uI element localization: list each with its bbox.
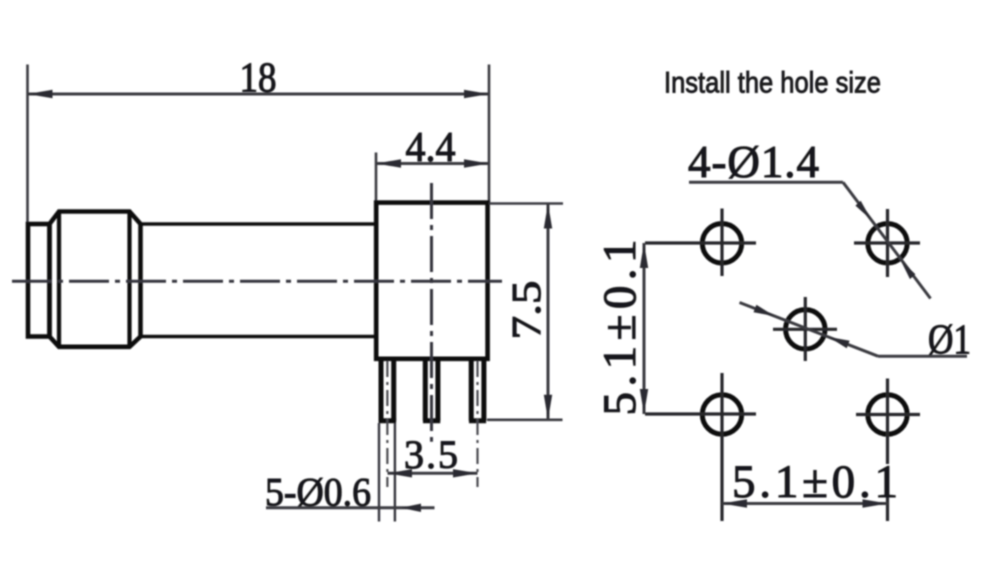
- dim 3.5 line: [388, 472, 478, 475]
- hex nut silhouette: [50, 212, 141, 347]
- dim 5.1 horizontal arrow right: [863, 499, 888, 507]
- svg-text:Ø1: Ø1: [928, 318, 971, 364]
- label O1 arrow lower: [829, 337, 850, 348]
- svg-text:7.5: 7.5: [503, 281, 549, 340]
- pin 3 right edge: [481, 359, 486, 421]
- dim 7.5 line: [547, 204, 550, 420]
- dim 7.5 arrow down: [544, 395, 552, 420]
- dim 7.5 extension bottom: [487, 418, 563, 421]
- hole top-right cross horizontal: [854, 241, 920, 244]
- dim 18 extension line right: [488, 65, 491, 204]
- hole top-left: [702, 224, 741, 263]
- label 4-O1.4 leader diagonal: [843, 182, 931, 298]
- hole top-right cross vertical: [886, 209, 889, 277]
- hole bottom-left cross horizontal / 5.1 bottom extension: [645, 412, 756, 415]
- dim 18 arrow left: [28, 90, 53, 98]
- hole center: [786, 310, 825, 349]
- pin 2 bottom: [423, 418, 440, 423]
- dim 18 arrow right: [464, 90, 489, 98]
- pin 2 right edge: [435, 359, 440, 421]
- dim 4.4 arrow left: [376, 159, 401, 167]
- pin 2 left edge: [423, 359, 428, 421]
- label 4-O1.4 arrow lower: [901, 260, 916, 279]
- dim 4.4 extension line left: [375, 153, 378, 202]
- label 5-O0.6 arrow: [401, 504, 421, 512]
- svg-text:4.4: 4.4: [406, 125, 456, 171]
- hole bottom-left cross vertical / ext down: [720, 373, 723, 521]
- label 4-O1.4 arrow upper: [855, 201, 871, 220]
- hex nut face edge right: [127, 212, 131, 347]
- dim 3.5 arrow left: [388, 469, 413, 477]
- vertical axis centerline of block: [430, 183, 433, 442]
- barrel bottom line: [141, 335, 377, 339]
- label 4-O1.4 underline: [689, 181, 843, 184]
- label 5-O0.6 leader line: [266, 506, 435, 509]
- pin 3 left edge: [469, 359, 474, 421]
- pin 1 left edge extension: [378, 423, 380, 522]
- dim 18 extension line left: [26, 65, 29, 223]
- hole bottom-left: [702, 395, 741, 434]
- dim 5.1 vertical arrow up: [640, 243, 648, 268]
- pin 3 centerline: [476, 361, 478, 487]
- pin 1 bottom: [379, 418, 397, 423]
- dim 3.5 arrow right: [453, 469, 478, 477]
- hole top-right: [868, 224, 907, 263]
- label O1 leader diagonal: [740, 303, 879, 357]
- hole top-left cross horizontal / 5.1 top extension: [645, 241, 756, 244]
- hole top-left cross vertical: [720, 209, 723, 277]
- hole bottom-right: [868, 395, 907, 434]
- hole bottom-right cross horizontal: [856, 413, 920, 416]
- svg-text:5.1±0.1: 5.1±0.1: [732, 456, 898, 508]
- dim 7.5 arrow up: [544, 204, 552, 229]
- label O1 arrow upper: [754, 305, 775, 316]
- body block: [376, 203, 487, 359]
- svg-text:5.1±0.1: 5.1±0.1: [594, 240, 646, 416]
- dim 5.1 horizontal arrow left: [722, 499, 747, 507]
- dim 5.1 vertical arrow down: [640, 389, 648, 414]
- connector cap (left end): [28, 224, 50, 337]
- dim 18 line: [28, 93, 490, 96]
- svg-text:18: 18: [240, 56, 277, 102]
- hole center cross vertical: [804, 297, 807, 361]
- dim 7.5 extension top: [489, 202, 563, 205]
- dim 5.1 vertical line: [643, 243, 646, 414]
- pin 1 right edge: [391, 359, 396, 421]
- barrel top line: [141, 222, 377, 226]
- pin 1 left edge: [379, 359, 384, 421]
- hole center cross horizontal: [773, 328, 837, 331]
- pin 1 right edge extension: [394, 423, 396, 522]
- dim 5.1 horizontal line: [722, 502, 888, 505]
- pin 3 bottom: [469, 418, 486, 423]
- hex nut face edge left: [57, 212, 61, 347]
- dim 4.4 arrow right: [464, 159, 489, 167]
- pin 1 centerline: [386, 361, 388, 487]
- horizontal axis centerline: [12, 280, 502, 283]
- svg-text:Install the hole size: Install the hole size: [664, 67, 881, 100]
- svg-text:4-Ø1.4: 4-Ø1.4: [688, 137, 819, 187]
- svg-text:3.5: 3.5: [404, 432, 458, 477]
- dim 4.4 line: [376, 162, 489, 165]
- label O1 leader underline: [878, 355, 967, 358]
- hole bottom-right cross vertical / ext down: [886, 379, 889, 522]
